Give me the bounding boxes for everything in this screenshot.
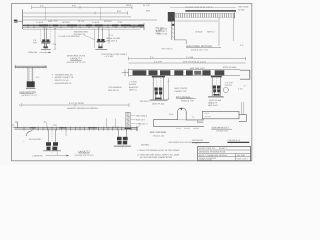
svg-text:FOR DET: FOR DET	[136, 118, 146, 121]
svg-text:TYP: TYP	[118, 21, 123, 24]
svg-text:PL 1/4: PL 1/4	[78, 20, 85, 23]
top view dim line 1	[32, 5, 132, 9]
corner bracket leg bolt	[172, 19, 175, 21]
sidewalk bar step	[239, 115, 246, 122]
hanger H2 rods	[99, 28, 103, 40]
svg-text:SHT 1 OF 2: SHT 1 OF 2	[237, 158, 249, 161]
svg-text:BRACKET: BRACKET	[129, 86, 140, 89]
svg-text:o - HANGER ROD 3/4: o - HANGER ROD 3/4	[52, 73, 73, 76]
svg-text:NOTE 2: NOTE 2	[207, 31, 215, 34]
svg-text:RAIL TYP: RAIL TYP	[48, 20, 58, 23]
tick between hangers	[65, 130, 67, 136]
svg-text:B THIS: B THIS	[155, 29, 162, 32]
midright beam left end cap	[128, 69, 130, 77]
END SECTION web	[28, 67, 33, 82]
svg-text:MONORAIL FRAMING PLAN: MONORAIL FRAMING PLAN	[199, 151, 226, 154]
corner bracket vertical leg	[172, 18, 175, 40]
svg-text:BEAM CLAMP: BEAM CLAMP	[106, 37, 120, 40]
hanger projection verticals	[46, 7, 101, 20]
lower beam bottom line	[15, 128, 138, 130]
svg-text:+/-: +/-	[244, 84, 247, 87]
channel hatch	[126, 115, 130, 126]
svg-text:- - SPLICE PL 1/4: - - SPLICE PL 1/4	[52, 79, 69, 82]
svg-text:SEE DET: SEE DET	[155, 27, 165, 30]
svg-text:RAIL END BAR: RAIL END BAR	[150, 131, 167, 134]
END SECTION shoe blob	[27, 81, 35, 87]
svg-text:BLDG 7 CRANE RAIL DETAILS: BLDG 7 CRANE RAIL DETAILS	[199, 154, 228, 157]
title block frame	[198, 146, 251, 160]
svg-text:BAR 3x1/2: BAR 3x1/2	[208, 104, 218, 107]
svg-text:EL 141'-2: EL 141'-2	[139, 123, 149, 126]
END SECTION foot	[26, 88, 35, 90]
svg-text:(SCALE 1/2): (SCALE 1/2)	[153, 135, 165, 138]
svg-text:8'-0 REF LINE AT EL 142'-6: 8'-0 REF LINE AT EL 142'-6	[185, 6, 213, 9]
svg-text:~ - ANCHOR BOLTS: ~ - ANCHOR BOLTS	[52, 82, 72, 85]
title block texts	[199, 147, 249, 161]
title block row lines	[198, 150, 251, 161]
svg-text:L2054-AA: L2054-AA	[28, 51, 38, 54]
svg-text:REF: REF	[146, 9, 151, 12]
J-bar outline	[154, 108, 205, 127]
svg-text:5'-0 TYP: 5'-0 TYP	[154, 60, 163, 63]
midright S2 clamp cluster	[213, 86, 221, 93]
lower hanger B base	[114, 145, 131, 147]
J-bar under dashes	[176, 127, 199, 129]
lower hanger A clamp cluster	[46, 142, 58, 150]
svg-text:IN FIELD BEFORE FABRICATION: IN FIELD BEFORE FABRICATION	[140, 156, 172, 159]
lower hanger B centerline	[121, 145, 123, 150]
svg-text:(SCALE 1/4"=1'-0"): (SCALE 1/4"=1'-0")	[191, 48, 208, 51]
svg-text:EL 142: EL 142	[143, 4, 150, 7]
svg-text:W 8x18: W 8x18	[195, 31, 203, 34]
hanger H2 dim verticals	[95, 29, 109, 48]
monorail tag symbol top-left	[14, 20, 23, 23]
svg-text:SIDEWALK DET: SIDEWALK DET	[212, 126, 230, 129]
top right note heavy bar	[185, 10, 236, 12]
svg-text:1'-6 TYP: 1'-6 TYP	[225, 81, 234, 84]
midright beam top line	[129, 69, 240, 71]
corner bracket chord end tick	[233, 12, 235, 18]
svg-text:CHK RW 6-12: CHK RW 6-12	[227, 139, 241, 142]
midright S1 clamp cluster	[154, 88, 162, 95]
sidewalk bar right dim verticals	[241, 102, 243, 114]
svg-text:SPLICE: SPLICE	[104, 20, 112, 23]
J-bar loop arrow	[180, 108, 183, 111]
midright dim line B	[129, 62, 246, 64]
corner bracket corner blob	[168, 12, 175, 22]
svg-text:L2054-AA: L2054-AA	[33, 154, 43, 157]
svg-text:1'-3 COL: 1'-3 COL	[129, 81, 138, 84]
midright S1 inner dashes	[156, 78, 160, 87]
hanger H1 centerline	[45, 44, 47, 53]
lower beam hatch ticks	[24, 127, 131, 131]
midright S2 inner dashes	[215, 78, 217, 85]
svg-text:PLANT 7: PLANT 7	[219, 147, 228, 150]
svg-text:SPLICE: SPLICE	[62, 21, 70, 24]
svg-text:TYP 2 PLCS: TYP 2 PLCS	[161, 47, 173, 50]
hanger H1 guide dashes	[41, 29, 51, 42]
svg-text:NOTE 3: NOTE 3	[129, 88, 137, 91]
svg-text:3/4 DIA ROD: 3/4 DIA ROD	[29, 138, 42, 141]
svg-text:5'-0 TYP SPAN: 5'-0 TYP SPAN	[69, 102, 84, 105]
midright S1 top plate	[152, 76, 165, 78]
lower hanger B rods	[118, 130, 126, 137]
hanger H2 base line	[95, 48, 107, 50]
left rail channel	[125, 112, 130, 127]
LAYOUT 2 label	[75, 150, 94, 157]
hanger H2 foot	[98, 44, 102, 49]
top view beam lower line	[23, 28, 140, 30]
corner bracket dim verticals	[219, 18, 234, 47]
midright S2 top plate	[211, 76, 222, 78]
svg-text:SEE DET A: SEE DET A	[106, 39, 117, 42]
lower beam end cap	[136, 126, 138, 131]
J-bar right leader	[193, 116, 195, 118]
corner bracket leg bottom	[174, 40, 186, 44]
svg-text:SADDLE TYP: SADDLE TYP	[181, 99, 195, 102]
svg-text:+ 4'-1 5/8: + 4'-1 5/8	[104, 55, 114, 58]
END SECTION detail flange	[15, 65, 47, 68]
hanger H1 dim vertical	[54, 28, 56, 50]
svg-text:18'-0: 18'-0	[126, 4, 132, 7]
midright S1 base	[150, 99, 168, 101]
svg-text:(SCALE 1/4"=1'-0"): (SCALE 1/4"=1'-0")	[67, 61, 86, 64]
lower dim line	[22, 103, 129, 107]
midright left cross mark	[122, 69, 129, 76]
hanger H1 rods	[44, 28, 46, 40]
lower hanger A rods	[49, 130, 56, 143]
svg-text:JACK TR DET: JACK TR DET	[180, 97, 194, 100]
top view beam hatch ticks	[28, 24, 141, 28]
top view dim line 2	[23, 11, 128, 15]
hanger H2 clamp blob	[97, 39, 106, 42]
sidewalk bar rect	[202, 111, 239, 118]
channel base marks	[125, 128, 132, 130]
svg-text:(SCALE 1/2): (SCALE 1/2)	[217, 130, 229, 133]
verticals from J-bar area to lower beam	[107, 119, 116, 128]
svg-text:M-102: M-102	[239, 8, 246, 11]
svg-text:C 4x13: C 4x13	[36, 21, 44, 24]
hanger H1 base line	[41, 48, 51, 50]
svg-text:1. RAILS TO REMAIN LEVEL AFTER: 1. RAILS TO REMAIN LEVEL AFTER LOADS	[137, 149, 180, 152]
channel leader texts	[136, 114, 148, 125]
top view beam rail band	[23, 24, 144, 26]
midright beam right end bracket	[240, 70, 250, 79]
END SECTION flange hatch	[18, 67, 43, 68]
corner bracket leader text	[156, 27, 168, 35]
svg-text:HANGER SPACING AS SHOWN: HANGER SPACING AS SHOWN	[67, 107, 98, 110]
legend list	[52, 73, 74, 84]
border frame	[12, 4, 252, 161]
corner bracket chord bottom line	[172, 20, 218, 22]
svg-text:REF DWG: REF DWG	[239, 6, 249, 9]
midright S2 feet	[213, 93, 219, 96]
svg-text:SEE DWG 3: SEE DWG 3	[136, 114, 148, 117]
svg-text:ABC RAIL 4x13: ABC RAIL 4x13	[190, 67, 205, 70]
top view beam right end angle	[130, 23, 144, 30]
svg-text:ASCE 40 RAIL: ASCE 40 RAIL	[223, 66, 238, 69]
svg-text:REF DWGS M-101 M-102: REF DWGS M-101 M-102	[169, 141, 193, 144]
lower hanger B clamp cluster	[117, 137, 128, 145]
svg-text:JACK TRUSS: JACK TRUSS	[174, 87, 188, 90]
lower hanger A centerline	[51, 146, 53, 153]
END SECTION web bolt dashes	[30, 68, 32, 81]
corner bracket top chord lines	[174, 14, 234, 18]
svg-text:SEE DET C: SEE DET C	[140, 100, 151, 103]
midright beam dark modules	[133, 70, 225, 75]
midright beam bottom line	[129, 75, 240, 77]
svg-text:C: C	[19, 104, 21, 107]
svg-text:TYP: TYP	[53, 124, 58, 127]
svg-text:SEE DET A: SEE DET A	[108, 89, 119, 92]
svg-text:1'-4 5/8: 1'-4 5/8	[186, 56, 194, 59]
top view beam rail dark segments	[39, 24, 144, 26]
hanger H1 foot	[43, 44, 47, 49]
top view text row above beam	[36, 20, 123, 24]
sidewalk small piece	[197, 121, 203, 123]
top view dim line 3	[23, 16, 131, 18]
svg-text:(SCALE 1"=1'-0"): (SCALE 1"=1'-0")	[21, 94, 37, 97]
dim line above bracket	[170, 6, 236, 8]
midright S1 dim tick	[167, 78, 169, 100]
svg-text:ADDITIONAL SECTION: ADDITIONAL SECTION	[186, 45, 212, 48]
svg-text:DWG: DWG	[155, 32, 160, 35]
svg-text:C 4x13: C 4x13	[112, 126, 119, 129]
svg-text:TYP: TYP	[33, 42, 38, 45]
svg-text:+ - BEAM CLAMP TYP: + - BEAM CLAMP TYP	[52, 76, 74, 79]
lower beam top line	[15, 127, 138, 129]
top view beam left end vertical	[22, 10, 24, 30]
top view beam top chord	[23, 19, 158, 21]
lower beam left end hook	[15, 122, 32, 136]
svg-text:BASE PL 6x8: BASE PL 6x8	[209, 99, 222, 102]
svg-text:C 4x13: C 4x13	[92, 21, 100, 24]
svg-text:(SCALE 1/4"=1'-0"): (SCALE 1/4"=1'-0")	[75, 154, 94, 157]
lower beam dark segments	[30, 127, 97, 129]
svg-text:2. CONTRACTOR SHALL VERIFY ALL: 2. CONTRACTOR SHALL VERIFY ALL DIMS	[137, 153, 180, 156]
svg-text:BASE PL 6x8: BASE PL 6x8	[152, 102, 165, 105]
svg-text:NO 1042: NO 1042	[237, 154, 246, 157]
top view beam bottom flange line	[23, 27, 144, 29]
sidewalk bar inner marks	[205, 113, 212, 117]
svg-text:ACME STEEL CO: ACME STEEL CO	[199, 147, 216, 150]
lower hanger A base	[43, 150, 61, 152]
midright dim line A	[129, 57, 246, 61]
svg-text:DATE 6-12-59: DATE 6-12-59	[199, 158, 213, 161]
hanger H1 clamp blob	[41, 39, 50, 42]
midright S1 feet	[155, 95, 162, 100]
midright support S2 columns	[212, 77, 220, 96]
LAYOUT 1 label	[67, 54, 86, 64]
svg-text:CHORD TYP: CHORD TYP	[174, 90, 187, 93]
midright S2 balloon	[223, 87, 228, 92]
J-bar line under loop	[178, 119, 187, 121]
svg-text:2 PLCS: 2 PLCS	[225, 84, 233, 87]
corner bracket top chord ticks	[176, 13, 233, 17]
hanger H1 lower line	[41, 43, 50, 45]
midright S2 base	[208, 95, 224, 97]
svg-text:W 8x24: W 8x24	[129, 83, 137, 86]
midright S1 left leader text	[129, 81, 140, 92]
midright support S1 columns	[153, 77, 163, 100]
svg-text:NOTES:: NOTES:	[141, 144, 150, 147]
svg-text:TYP HANGER: TYP HANGER	[108, 86, 122, 89]
lower hanger A dashes	[51, 130, 53, 142]
svg-text:TOP OF RAIL EL 141'-2: TOP OF RAIL EL 141'-2	[183, 60, 207, 63]
